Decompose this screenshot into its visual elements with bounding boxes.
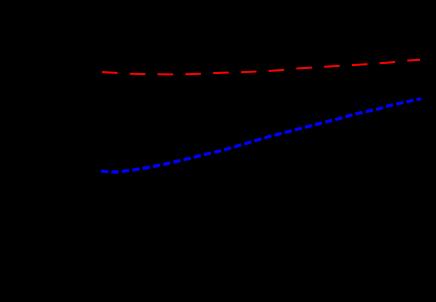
red dashed curve (upper) — [102, 60, 420, 75]
blue dashed curve (lower) — [101, 99, 421, 172]
